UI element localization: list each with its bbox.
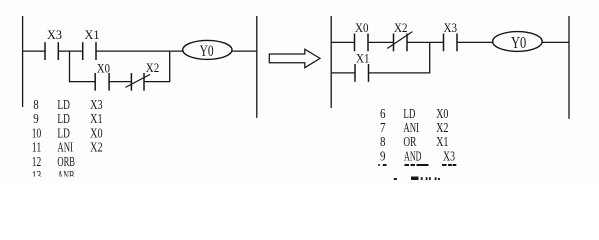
svg-text:6: 6	[380, 107, 386, 122]
svg-text:X2: X2	[436, 121, 448, 136]
svg-text:9: 9	[33, 112, 39, 127]
white clip over cut line 13	[28, 177, 98, 181]
svg-text:11: 11	[32, 141, 42, 156]
svg-text:LD: LD	[403, 107, 415, 122]
svg-text:12: 12	[32, 155, 42, 170]
svg-text:ANI: ANI	[403, 121, 419, 136]
wire: X2 past junction to X3	[407, 41, 444, 43]
svg-text:X0: X0	[355, 21, 369, 35]
wire: left rail to contact X3	[23, 50, 45, 52]
svg-text:X2: X2	[146, 61, 160, 75]
wire: branch down from tee at node after X3	[69, 51, 71, 82]
coil Y0 ellipse (right)	[493, 32, 543, 52]
wire: X3 to X1 with branch tee	[58, 50, 82, 52]
transform arrow	[269, 49, 320, 67]
wire: X2 to branch rejoin	[144, 81, 170, 83]
contact X2 (NC) bars	[130, 73, 132, 91]
svg-text:X1: X1	[436, 135, 448, 150]
svg-text:7: 7	[380, 121, 386, 136]
contact X3 (NO) bars (right)	[443, 34, 445, 52]
svg-text:ORB: ORB	[57, 155, 75, 170]
cut-off line 10 OUT Y0 (visible glyph tops only)	[378, 164, 456, 166]
svg-text:Y0: Y0	[511, 33, 526, 52]
wire: coil to right rail	[232, 50, 257, 52]
contact X1 (NO) bars (right branch)	[354, 64, 356, 82]
wire: branch up to main rung	[169, 51, 171, 82]
svg-text:X3: X3	[444, 21, 458, 35]
instruction list left	[32, 98, 103, 184]
svg-text:10: 10	[32, 126, 42, 141]
svg-text:LD: LD	[57, 98, 70, 113]
svg-text:X2: X2	[90, 141, 103, 156]
svg-text:X1: X1	[85, 28, 100, 42]
left ladder: left power rail	[22, 16, 24, 107]
right ladder: right power rail	[568, 16, 570, 119]
wire: X1 to junction	[369, 72, 430, 74]
right ladder: left power rail	[330, 16, 332, 108]
svg-text:X0: X0	[436, 107, 448, 122]
svg-text:ANI: ANI	[57, 141, 73, 156]
wire: X0 to X2 (right)	[368, 41, 394, 43]
wire: rail to contact X1 (branch)	[331, 72, 355, 74]
contact X2 (NC) bars (right)	[393, 34, 395, 52]
svg-text:Y0: Y0	[200, 43, 214, 60]
svg-text:X0: X0	[97, 61, 110, 75]
svg-text:LD: LD	[57, 126, 70, 141]
left ladder: right power rail	[256, 16, 258, 118]
svg-text:8: 8	[380, 135, 386, 150]
wire: X1 to coil Y0	[96, 50, 183, 52]
svg-text:LD: LD	[57, 112, 70, 127]
wire: junction down to parallel branch	[429, 42, 431, 73]
svg-text:8: 8	[33, 98, 39, 113]
svg-text:9: 9	[380, 149, 386, 164]
wire: coil to right rail (right ladder)	[542, 41, 569, 43]
svg-text:AND: AND	[404, 149, 422, 164]
svg-text:X3: X3	[443, 149, 455, 164]
coil Y0 ellipse (left)	[183, 40, 232, 59]
wire: branch rung to contact X0	[70, 81, 96, 83]
svg-text:X0: X0	[90, 126, 103, 141]
contact X2 slash	[125, 74, 150, 87]
wire: X3 to coil	[457, 41, 493, 43]
contact X0 (NO) bars	[94, 73, 96, 91]
svg-text:X3: X3	[47, 28, 62, 42]
svg-text:X3: X3	[90, 98, 103, 113]
contact X3 (NO) bars	[44, 42, 46, 60]
svg-text:X1: X1	[90, 112, 103, 127]
contact X1 (NO) bars	[82, 42, 84, 60]
svg-text:X1: X1	[356, 52, 370, 66]
cut-off caption text tops at bottom edge	[394, 177, 440, 181]
contact X0 (NO) bars (right)	[354, 34, 356, 52]
wire: rail to contact X0	[331, 41, 354, 43]
wire: X0 to X2	[109, 81, 131, 83]
svg-text:OR: OR	[403, 135, 416, 150]
instruction list right	[380, 107, 455, 165]
svg-text:X2: X2	[394, 21, 408, 35]
contact X2 slash (right)	[387, 32, 412, 49]
